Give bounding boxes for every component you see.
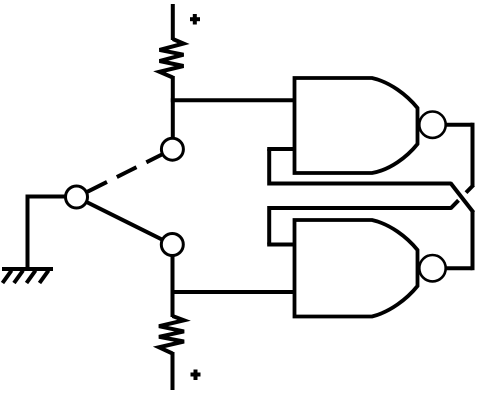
- wire feedback Q vertical: [267, 206, 271, 245]
- wire feedback Q to U2 horizontal: [269, 206, 451, 210]
- wire feedback Qbar to U1 horizontal: [269, 182, 451, 186]
- wire crossover hop upper stub: [466, 185, 474, 193]
- resistor R1: [160, 39, 184, 78]
- wire crossover diagonal Qbar: [451, 183, 474, 213]
- NAND gate U1: [295, 78, 418, 173]
- wire U1 lower input stub: [267, 147, 294, 151]
- switch SW1 dashed throw: [87, 155, 162, 192]
- NAND gate U2: [295, 220, 418, 317]
- wire R1 to top switch contact: [171, 76, 175, 149]
- wire ground to switch pole: [28, 195, 77, 270]
- output bubble U2: [419, 255, 445, 281]
- switch SW1 lower contact: [161, 234, 183, 256]
- wire bottom switch contact to R2: [171, 245, 175, 318]
- output bubble U1: [419, 112, 445, 138]
- wire crossover hop lower stub: [451, 200, 459, 208]
- wire feedback Qbar vertical: [267, 149, 271, 186]
- wire right vertical from U1 output: [471, 123, 475, 187]
- ground: [2, 269, 53, 283]
- V+ label top: [190, 14, 200, 25]
- switch SW1 lever: [77, 197, 173, 245]
- resistor R2: [159, 316, 184, 354]
- wire U2 output to right: [445, 266, 473, 270]
- wire right vertical from U2 output: [471, 211, 475, 271]
- wire node A to U1 input: [171, 98, 295, 102]
- wire U2 upper input stub: [267, 243, 294, 247]
- wire node B to U2 input: [171, 290, 295, 294]
- switch SW1 pole contact: [66, 186, 88, 208]
- switch SW1 upper contact: [161, 138, 183, 160]
- wire bottom supply: [171, 352, 175, 390]
- V+ label bottom: [191, 370, 201, 381]
- wire top supply: [171, 4, 175, 40]
- wire U1 output to right: [445, 123, 473, 127]
